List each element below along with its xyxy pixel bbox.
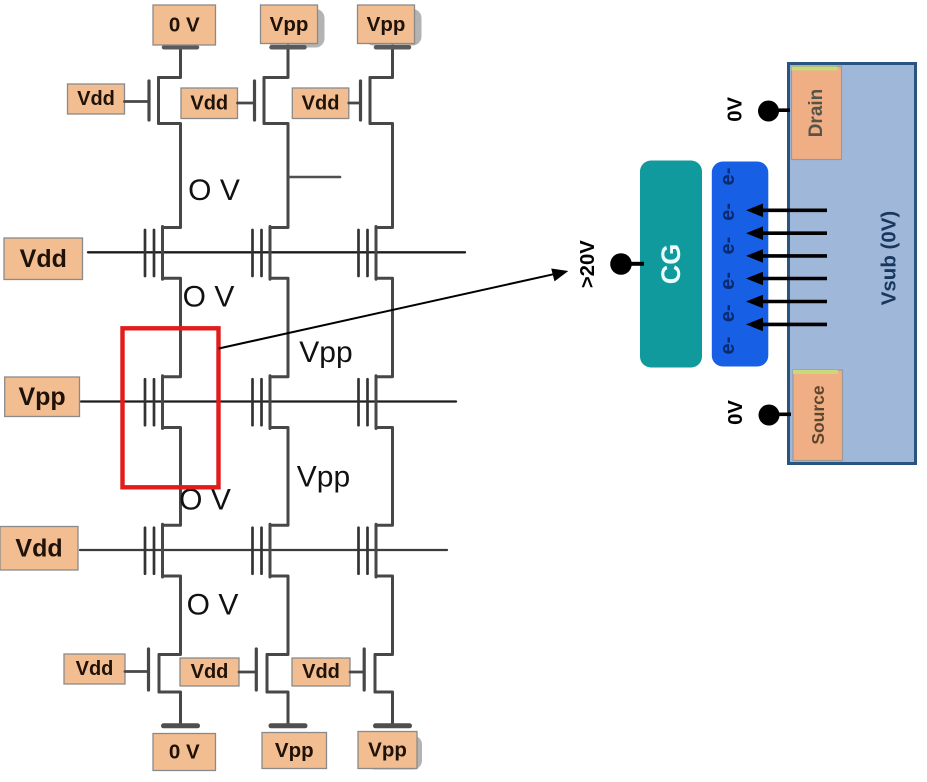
gate label box Vdd (S2) xyxy=(181,88,238,119)
control gate CG electrode xyxy=(640,161,702,368)
bitline label box Vpp (top BL3) xyxy=(358,5,415,44)
svg-text:Vdd: Vdd xyxy=(191,661,229,683)
gate label box Vdd (S1) xyxy=(68,84,125,114)
svg-text:Vdd: Vdd xyxy=(77,88,115,110)
highlight rectangle around cell M21 xyxy=(123,328,219,487)
transistor S3 (top select, BL3) xyxy=(361,78,371,124)
floating-gate cell M12 (WL1 x BL2) xyxy=(253,227,271,280)
electron injection arrow #5 xyxy=(746,295,827,309)
transistor S1 (top select, BL1) xyxy=(149,78,159,124)
floating gate region with trapped electrons xyxy=(712,162,769,367)
svg-text:O V: O V xyxy=(188,174,240,207)
wire BL1 segment WL1 to WL2 xyxy=(163,278,181,376)
gate label box Vdd (S6) xyxy=(292,658,350,686)
wire gate S5 xyxy=(239,671,256,674)
svg-text:e-: e- xyxy=(717,237,739,255)
wire BL2 segment WL2 to WL3 xyxy=(270,428,288,526)
bitline label box Vpp (bottom BL3) xyxy=(358,732,417,769)
bitline label box 0 V (top BL1) xyxy=(153,5,216,45)
svg-text:Vsub (0V): Vsub (0V) xyxy=(878,211,901,306)
gate label box Vdd (S5) xyxy=(180,658,239,686)
wire BL3 segment WL2 to WL3 xyxy=(376,428,393,526)
wire BL2 segment select to WL1 cell xyxy=(264,124,288,228)
gate label box Vdd (S3) xyxy=(292,88,349,119)
svg-text:0 V: 0 V xyxy=(169,14,200,37)
wire BL3 segment WL1 to WL2 xyxy=(376,278,393,376)
wire BL2 segment WL1 to WL2 xyxy=(270,278,288,376)
svg-text:Vdd: Vdd xyxy=(20,245,67,273)
svg-text:>20V: >20V xyxy=(577,240,599,288)
svg-text:Source: Source xyxy=(808,385,828,445)
electron injection arrow #4 xyxy=(746,272,827,286)
svg-text:0V: 0V xyxy=(725,400,747,425)
terminal dot drain 0V xyxy=(758,101,790,122)
wire stub on BL2 xyxy=(289,176,340,179)
svg-text:e-: e- xyxy=(717,203,739,221)
bottom contact bar BL3 xyxy=(376,723,410,728)
wire gate S4 xyxy=(125,670,149,673)
floating-gate cell M32 (WL3 x BL2) xyxy=(253,524,271,577)
svg-text:e-: e- xyxy=(717,168,739,186)
transistor S6 (bottom select, BL3) xyxy=(364,649,375,692)
wire gate S2 xyxy=(238,102,255,105)
wire gate S3 xyxy=(349,102,361,105)
svg-text:Vpp: Vpp xyxy=(367,13,406,36)
electron injection arrow #3 xyxy=(746,249,827,263)
svg-text:Vpp: Vpp xyxy=(275,739,314,762)
floating-gate cell M22 (WL2 x BL2) xyxy=(253,376,271,429)
svg-text:Vdd: Vdd xyxy=(190,92,228,114)
wire bitline BL1 top segment xyxy=(159,46,181,78)
wire BL1 bottom segment xyxy=(159,692,181,723)
svg-text:Vdd: Vdd xyxy=(302,661,340,683)
terminal dot CG (>20V) xyxy=(610,253,644,275)
top contact bar BL2 xyxy=(272,45,305,50)
svg-text:Drain: Drain xyxy=(806,89,827,138)
bottom contact bar BL2 xyxy=(271,723,305,728)
wire wordline WL2 (Vpp) xyxy=(81,400,456,402)
svg-text:Vdd: Vdd xyxy=(302,92,340,114)
bottom contact bar BL1 xyxy=(164,723,198,728)
bitline label box Vpp (top BL2) xyxy=(261,5,318,44)
svg-text:Vpp: Vpp xyxy=(368,739,407,762)
svg-text:CG: CG xyxy=(656,244,686,285)
floating-gate cell M11 (WL1 x BL1) xyxy=(145,227,163,280)
shadow of top Vpp box BL2 xyxy=(268,9,325,48)
svg-text:0 V: 0 V xyxy=(169,741,200,764)
transistor S2 (top select, BL2) xyxy=(255,78,265,124)
wire BL2 segment WL3 to bottom select xyxy=(267,576,288,655)
svg-text:Vdd: Vdd xyxy=(76,658,114,680)
source contact region xyxy=(793,370,843,461)
electron injection arrow #6 xyxy=(746,318,827,332)
wire gate S6 xyxy=(350,671,364,674)
wire wordline WL1 (Vdd) xyxy=(88,251,465,253)
wire BL2 bottom segment xyxy=(267,692,288,723)
wire BL1 segment select to WL1 cell xyxy=(159,124,181,228)
callout arrow from highlighted cell to CG terminal xyxy=(219,269,569,349)
wire BL3 segment select to WL1 cell xyxy=(370,124,393,228)
floating-gate cell M21 (WL2 x BL1) xyxy=(145,376,163,429)
transistor S5 (bottom select, BL2) xyxy=(256,649,267,692)
drain contact region xyxy=(792,67,842,160)
electron injection arrow #1 xyxy=(746,204,827,218)
svg-text:Vpp: Vpp xyxy=(18,383,65,411)
terminal dot source 0V xyxy=(759,405,792,426)
svg-text:O V: O V xyxy=(187,589,239,622)
wire wordline WL3 (Vdd) xyxy=(80,549,447,551)
gate label box Vdd (S4) xyxy=(64,654,125,684)
top contact bar BL3 xyxy=(376,45,409,50)
shadow of top Vpp box BL3 xyxy=(365,9,422,46)
bitline label box Vpp (bottom BL2) xyxy=(262,733,327,769)
svg-text:Vdd: Vdd xyxy=(15,534,62,562)
wire bitline BL3 top segment xyxy=(370,46,393,78)
wordline label box Vpp (WL2) xyxy=(5,377,80,417)
svg-text:Vpp: Vpp xyxy=(270,13,309,36)
wire BL3 bottom segment xyxy=(375,692,393,723)
wire BL1 segment WL3 to bottom select xyxy=(159,576,181,655)
floating-gate cell M23 (WL2 x BL3) xyxy=(359,376,377,429)
bitline label box 0 V (bottom BL1) xyxy=(153,734,216,771)
wire bitline BL2 top segment xyxy=(264,46,288,78)
wordline label box Vdd (WL1) xyxy=(4,238,83,280)
svg-text:e-: e- xyxy=(717,337,739,355)
wire BL1 segment WL2 to WL3 xyxy=(163,428,181,526)
wire BL3 segment WL3 to bottom select xyxy=(375,576,393,655)
electron injection arrow #2 xyxy=(746,226,827,240)
shadow of bottom Vpp box BL3 xyxy=(366,736,422,770)
wordline label box Vdd (WL3) xyxy=(0,527,78,571)
transistor S4 (bottom select, BL1) xyxy=(149,649,160,692)
svg-text:e-: e- xyxy=(717,272,739,290)
svg-text:O V: O V xyxy=(183,281,235,314)
floating-gate cell M33 (WL3 x BL3) xyxy=(359,524,377,577)
floating-gate cell M31 (WL3 x BL1) xyxy=(145,524,163,577)
substrate region Vsub xyxy=(789,64,916,464)
svg-text:0V: 0V xyxy=(725,96,747,121)
wire gate S1 xyxy=(125,100,150,103)
svg-text:Vpp: Vpp xyxy=(297,461,350,494)
top contact bar BL1 xyxy=(164,45,197,50)
svg-text:e-: e- xyxy=(717,304,739,322)
svg-text:Vpp: Vpp xyxy=(299,336,352,369)
floating-gate cell M13 (WL1 x BL3) xyxy=(359,227,377,280)
